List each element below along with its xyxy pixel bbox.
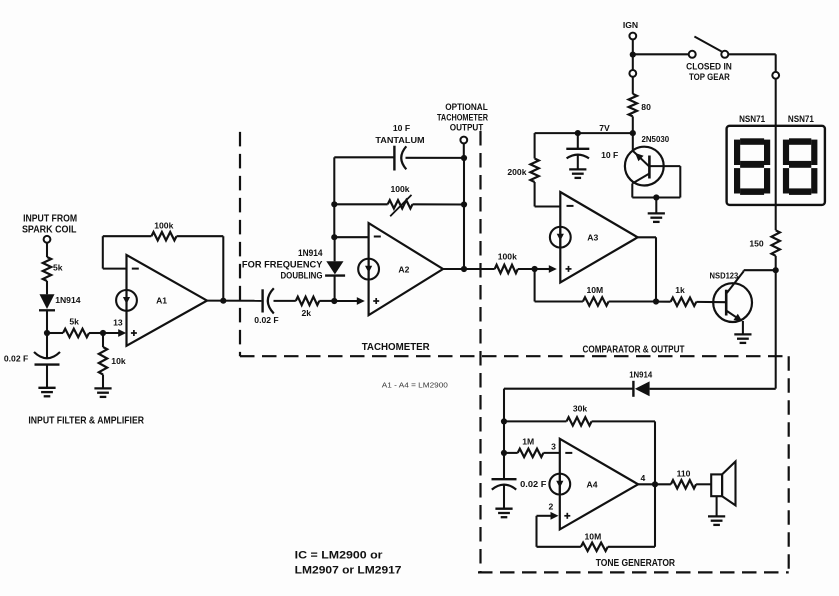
node (1M junction) bbox=[501, 450, 507, 456]
resistor 150 bbox=[749, 230, 780, 270]
switch closed in top gear bbox=[633, 37, 776, 82]
op-amp A4 bbox=[549, 439, 638, 530]
svg-text:80: 80 bbox=[641, 102, 651, 112]
svg-text:CLOSED IN: CLOSED IN bbox=[686, 62, 732, 72]
svg-text:10 F: 10 F bbox=[601, 150, 618, 160]
seven-segment digit 8 (right) bbox=[783, 138, 818, 195]
plus sign A4 bbox=[564, 513, 570, 519]
svg-text:A2: A2 bbox=[398, 264, 409, 274]
diode 1N914 (input) bbox=[39, 294, 81, 310]
wire (A2 output) bbox=[443, 268, 495, 270]
transistor NSD123 bbox=[710, 271, 752, 334]
wire (feedback vertical) bbox=[333, 204, 335, 237]
svg-text:10M: 10M bbox=[586, 285, 603, 295]
node (A3 + input) bbox=[532, 266, 538, 272]
pin 3 label bbox=[551, 442, 556, 452]
connector circle bbox=[629, 70, 636, 77]
svg-text:NSD123: NSD123 bbox=[710, 271, 739, 281]
wire bbox=[654, 421, 656, 484]
wire bbox=[775, 54, 777, 72]
resistor 10k bbox=[99, 333, 126, 375]
node (A2 output) bbox=[461, 266, 467, 272]
ground (tone cap) bbox=[495, 509, 512, 518]
wire bbox=[89, 332, 103, 334]
capacitor 0.02uF (tone) bbox=[492, 453, 547, 508]
speaker bbox=[711, 462, 735, 517]
op-amp A1 bbox=[116, 255, 207, 346]
svg-text:TACHOMETER: TACHOMETER bbox=[437, 112, 488, 122]
op-amp A3 bbox=[550, 192, 638, 282]
svg-text:OUTPUT: OUTPUT bbox=[450, 123, 484, 133]
input terminal from spark coil bbox=[22, 214, 77, 243]
wire bbox=[319, 300, 334, 302]
caption IC types bbox=[295, 549, 402, 576]
svg-text:5k: 5k bbox=[53, 263, 63, 273]
wire (right feedback vertical) bbox=[463, 158, 465, 269]
capacitor 10uF (7V) bbox=[566, 133, 618, 169]
resistor 30k (A4 feedback) bbox=[504, 404, 655, 426]
svg-text:100k: 100k bbox=[498, 252, 517, 262]
wire (A1 feedback up) bbox=[222, 236, 224, 301]
wire (to NSD123 base) bbox=[696, 301, 726, 303]
wire (from NSD123 node down) bbox=[775, 270, 777, 388]
capacitor 0.02uF (coupling) bbox=[254, 288, 278, 325]
connector circle bbox=[772, 72, 779, 79]
node (7V / 80 junction) bbox=[630, 130, 636, 136]
ground (NSD123) bbox=[734, 334, 751, 343]
svg-text:TONE GENERATOR: TONE GENERATOR bbox=[596, 558, 676, 569]
wire (feedback top branch) bbox=[334, 157, 394, 204]
minus sign A2 bbox=[374, 236, 381, 238]
resistor 100k (A3 input) bbox=[495, 252, 518, 274]
svg-text:4: 4 bbox=[641, 473, 646, 483]
svg-text:A1: A1 bbox=[156, 296, 167, 306]
wire (feedback to A1 - input) bbox=[103, 236, 127, 268]
node (input junction) bbox=[44, 330, 50, 336]
optional tachometer output terminal bbox=[437, 102, 488, 158]
ground (10k) bbox=[94, 388, 111, 397]
wire bbox=[696, 483, 711, 485]
svg-text:DOUBLING: DOUBLING bbox=[281, 271, 323, 281]
svg-text:1N914: 1N914 bbox=[55, 295, 81, 305]
wire (A4 output) bbox=[638, 483, 671, 485]
caption bbox=[28, 415, 144, 426]
label COMPARATOR & OUTPUT bbox=[583, 344, 685, 355]
svg-text:A4: A4 bbox=[587, 479, 598, 489]
wire (A1 output) bbox=[207, 300, 261, 302]
node (IGN junction) bbox=[630, 52, 636, 58]
capacitor 10uF tantalum (A2 feedback) bbox=[375, 123, 424, 170]
note A1-A4 = LM2900 bbox=[382, 380, 448, 389]
wire (collector to node) bbox=[744, 270, 776, 271]
wire with arrow into A3 + input bbox=[535, 265, 557, 273]
node bbox=[575, 130, 581, 136]
wire bbox=[102, 375, 104, 389]
svg-text:TACHOMETER: TACHOMETER bbox=[362, 342, 431, 353]
resistor 2k bbox=[296, 297, 320, 318]
node (A2 - branch) bbox=[331, 234, 337, 240]
resistor 5k (input) bbox=[43, 257, 63, 281]
wire bbox=[503, 389, 505, 422]
node (A4 output) bbox=[652, 481, 658, 487]
svg-text:2N5030: 2N5030 bbox=[641, 134, 669, 144]
minus sign A1 bbox=[132, 268, 139, 270]
pin 2 label bbox=[549, 502, 554, 512]
node (A2 + input) bbox=[331, 298, 337, 304]
svg-text:2: 2 bbox=[549, 502, 554, 512]
wire bbox=[503, 421, 505, 453]
diode 1N914 (tone gate) bbox=[504, 370, 652, 397]
node (30k junction) bbox=[501, 418, 507, 424]
wire (A3 - input) bbox=[535, 205, 561, 207]
resistor 10M (A4 feedback) bbox=[537, 484, 656, 551]
node 13 junction bbox=[100, 330, 106, 336]
svg-text:100k: 100k bbox=[390, 184, 409, 194]
plus sign A1 bbox=[131, 330, 137, 336]
wire bbox=[632, 55, 634, 70]
wire bbox=[632, 116, 634, 133]
resistor 10M (A3 feedback) bbox=[535, 269, 656, 306]
svg-text:IGN: IGN bbox=[623, 20, 638, 30]
svg-text:13: 13 bbox=[113, 317, 123, 327]
minus sign A4 bbox=[565, 452, 572, 454]
resistor 1M bbox=[504, 437, 560, 457]
svg-text:150: 150 bbox=[749, 239, 764, 249]
svg-text:10 F: 10 F bbox=[393, 123, 410, 133]
wire (A3 output) bbox=[638, 237, 656, 301]
svg-text:COMPARATOR & OUTPUT: COMPARATOR & OUTPUT bbox=[583, 344, 685, 355]
svg-text:2k: 2k bbox=[302, 308, 312, 318]
resistor 110 bbox=[671, 469, 696, 489]
svg-text:NSN71: NSN71 bbox=[788, 114, 814, 124]
svg-text:1M: 1M bbox=[522, 437, 534, 447]
resistor 1k bbox=[656, 285, 696, 306]
wire bbox=[406, 157, 465, 159]
node (A3 output / feedback) bbox=[653, 298, 659, 304]
wire (7V rail) bbox=[535, 123, 633, 133]
plus sign A2 bbox=[373, 298, 379, 304]
svg-text:INPUT FILTER & AMPLIFIER: INPUT FILTER & AMPLIFIER bbox=[28, 415, 144, 426]
ground (10uF) bbox=[569, 169, 586, 178]
resistor 5k (series) bbox=[63, 316, 89, 337]
wire bbox=[632, 77, 634, 94]
wire bbox=[46, 281, 48, 294]
svg-text:30k: 30k bbox=[573, 404, 588, 414]
dashed box tachometer (left edge) bbox=[239, 132, 241, 356]
node (display return) bbox=[773, 267, 779, 273]
ground (input cap) bbox=[38, 388, 55, 397]
wire bbox=[46, 310, 48, 333]
svg-text:IC = LM2900 or: IC = LM2900 or bbox=[295, 549, 383, 561]
wire (display feed) bbox=[775, 79, 777, 231]
svg-text:1N914: 1N914 bbox=[298, 248, 323, 258]
wire with arrow into A1 + input bbox=[103, 317, 126, 337]
ground (speaker) bbox=[708, 516, 725, 525]
node bbox=[461, 155, 467, 161]
plus sign A3 bbox=[566, 266, 572, 272]
minus sign A3 bbox=[567, 205, 574, 207]
display module NSN71 x2 bbox=[727, 114, 825, 205]
svg-text:1N914: 1N914 bbox=[629, 370, 652, 380]
op-amp A2 bbox=[358, 223, 443, 315]
terminal IGN bbox=[623, 20, 638, 39]
resistor 200k bbox=[507, 133, 538, 206]
seven-segment digit 8 (left) bbox=[734, 138, 770, 195]
ground (2N5030) bbox=[648, 213, 665, 222]
dashed box vertical (shared, x=480) bbox=[479, 131, 481, 572]
svg-text:200k: 200k bbox=[507, 167, 526, 177]
dashed box tone generator (bottom edge) bbox=[478, 571, 789, 573]
svg-text:10M: 10M bbox=[585, 531, 602, 541]
svg-text:NSN71: NSN71 bbox=[739, 114, 765, 124]
svg-text:OPTIONAL: OPTIONAL bbox=[445, 102, 488, 112]
node bbox=[331, 201, 337, 207]
wire bbox=[46, 243, 48, 257]
wire (to A2 - input) bbox=[334, 236, 368, 238]
node (2N5030 ground) bbox=[653, 194, 659, 200]
svg-text:0.02 F: 0.02 F bbox=[254, 315, 278, 325]
label TONE GENERATOR bbox=[596, 558, 676, 569]
wire bbox=[47, 332, 63, 334]
wire bbox=[655, 198, 657, 214]
svg-text:10k: 10k bbox=[111, 356, 126, 366]
svg-text:0.02 F: 0.02 F bbox=[4, 354, 28, 364]
pin 4 label bbox=[641, 473, 646, 483]
wire with arrow into A2 + input bbox=[334, 297, 365, 305]
svg-text:100k: 100k bbox=[154, 220, 173, 230]
svg-text:TANTALUM: TANTALUM bbox=[375, 135, 424, 145]
wire bbox=[632, 39, 634, 54]
node (A1 output) bbox=[220, 298, 226, 304]
wire bbox=[274, 300, 296, 302]
resistor 100k (A1 feedback) bbox=[103, 220, 224, 240]
svg-text:1k: 1k bbox=[675, 285, 685, 295]
capacitor 0.02uF (input) bbox=[4, 333, 60, 387]
svg-text:110: 110 bbox=[677, 469, 691, 479]
svg-text:3: 3 bbox=[551, 442, 556, 452]
svg-text:LM2907 or LM2917: LM2907 or LM2917 bbox=[295, 565, 402, 577]
svg-text:A1 - A4 = LM2900: A1 - A4 = LM2900 bbox=[382, 380, 448, 389]
diode 1N914 for frequency doubling bbox=[242, 237, 345, 301]
label TACHOMETER bbox=[362, 342, 431, 353]
svg-text:FOR FREQUENCY: FOR FREQUENCY bbox=[242, 259, 323, 269]
svg-text:A3: A3 bbox=[587, 232, 598, 242]
svg-text:0.02 F: 0.02 F bbox=[520, 479, 546, 489]
dashed box bottom (tachometer + comparator) bbox=[240, 355, 789, 357]
dashed box tone generator (right edge) bbox=[788, 356, 790, 572]
svg-text:7V: 7V bbox=[599, 123, 610, 133]
wire bbox=[650, 388, 776, 390]
resistor 80 bbox=[629, 94, 651, 117]
transistor 2N5030 bbox=[625, 133, 680, 197]
wire bbox=[518, 268, 535, 270]
svg-text:5k: 5k bbox=[69, 316, 79, 326]
variable resistor 100k (A2 feedback) bbox=[334, 184, 464, 216]
svg-text:INPUT FROM: INPUT FROM bbox=[23, 214, 77, 225]
svg-text:SPARK COIL: SPARK COIL bbox=[22, 224, 77, 235]
svg-text:TOP GEAR: TOP GEAR bbox=[689, 72, 730, 82]
node bbox=[461, 201, 467, 207]
